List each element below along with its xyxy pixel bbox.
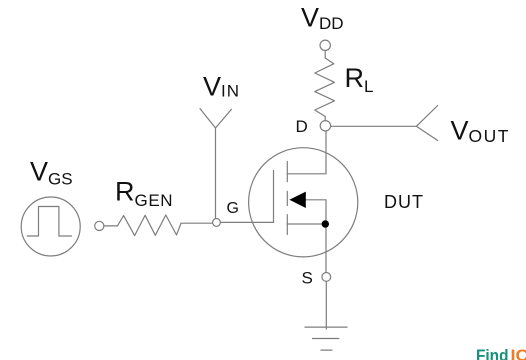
- body diode arrow (filled): [289, 192, 305, 208]
- resistor R_GEN: [118, 215, 182, 236]
- wire S to ground: [325, 281, 327, 329]
- node D terminal: [320, 121, 330, 131]
- channel segment top: [286, 162, 288, 182]
- svg-text:Find: Find: [476, 346, 509, 360]
- svg-text:IC: IC: [511, 346, 526, 360]
- MOSFET DUT body circle: [249, 148, 358, 257]
- svg-text:VDD: VDD: [301, 3, 344, 34]
- wire RL to node D: [324, 117, 326, 121]
- channel segment bottom: [286, 215, 288, 235]
- terminal left of R_GEN: [95, 221, 104, 230]
- node G terminal: [213, 219, 221, 227]
- S terminal: [322, 273, 331, 282]
- wire to S terminal: [325, 224, 327, 273]
- terminal V_DD: [320, 40, 330, 50]
- drain lead: [287, 131, 326, 174]
- wire resistor to node G: [181, 222, 213, 224]
- wire source to resistor: [104, 225, 118, 227]
- svg-text:VIN: VIN: [203, 72, 240, 102]
- svg-text:G: G: [227, 200, 239, 217]
- svg-text:VGS: VGS: [30, 157, 73, 189]
- output probe arrow V_OUT: [416, 106, 437, 141]
- source lead: [287, 223, 326, 225]
- channel segment middle: [286, 191, 288, 205]
- svg-text:DUT: DUT: [384, 192, 424, 212]
- svg-text:RL: RL: [345, 63, 374, 96]
- body arrow line: [305, 200, 327, 224]
- pulse waveform: [27, 207, 71, 237]
- svg-text:D: D: [296, 117, 308, 136]
- svg-text:VOUT: VOUT: [451, 116, 510, 147]
- antenna V_IN: [200, 109, 231, 219]
- wire Vdd to RL: [324, 51, 326, 59]
- junction dot: [322, 220, 329, 227]
- svg-text:RGEN: RGEN: [115, 177, 173, 211]
- gate bar: [273, 171, 275, 223]
- wire gate lead: [220, 221, 273, 223]
- ground line 1: [305, 326, 347, 328]
- svg-text:S: S: [302, 269, 313, 288]
- ground line 3: [321, 349, 332, 351]
- wire node D to Vout: [331, 125, 417, 127]
- ground line 2: [313, 338, 339, 340]
- voltage source V_GS: [21, 197, 80, 256]
- resistor R_L: [315, 58, 335, 117]
